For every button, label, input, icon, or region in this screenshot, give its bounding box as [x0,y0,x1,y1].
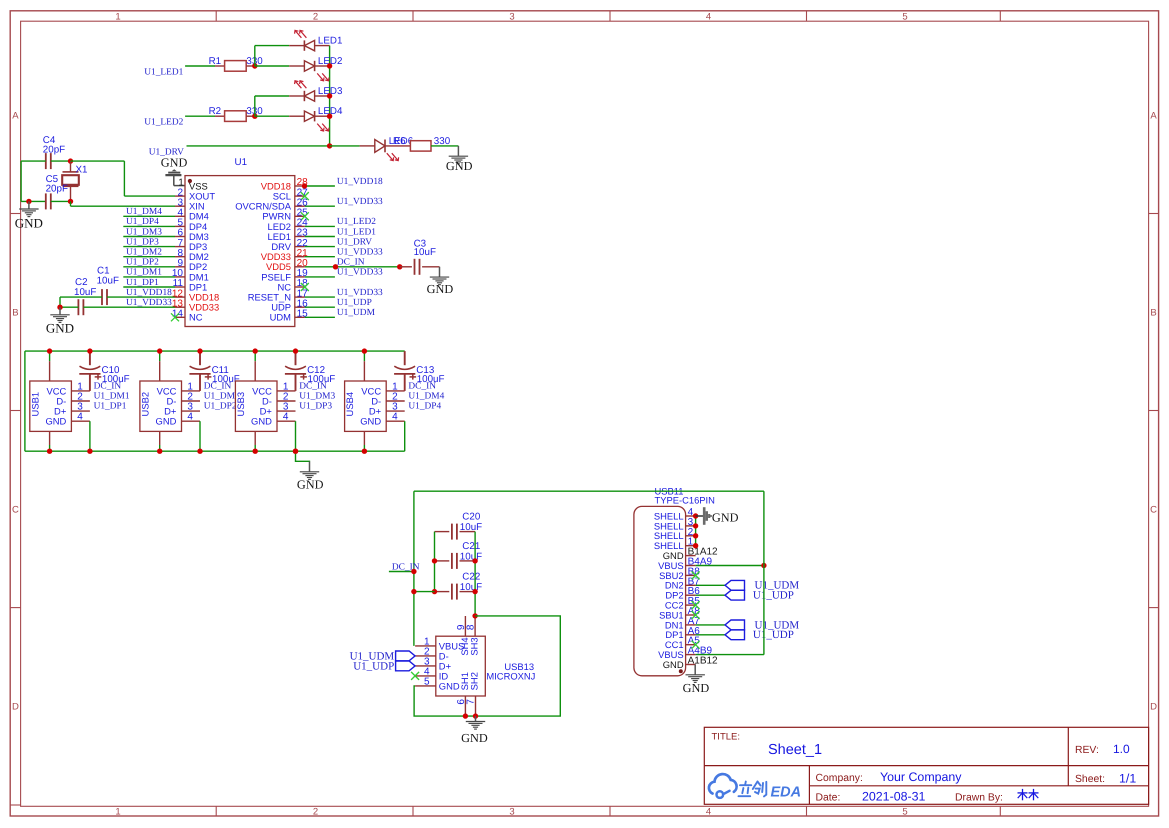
pin 7 DP3 [175,238,207,252]
svg-text:Sheet_1: Sheet_1 [768,742,822,758]
ground [15,201,43,230]
pin 16 UDP [271,298,308,312]
net label DC_IN [204,381,232,391]
svg-text:1: 1 [115,807,120,818]
wire [254,351,256,361]
pin 22 DRV [271,238,308,252]
wire [305,236,335,238]
svg-text:EDA: EDA [771,785,802,801]
svg-text:GND: GND [446,159,473,173]
junction [327,143,332,148]
svg-text:D: D [12,702,19,713]
pin 7 SH2 [466,672,480,716]
port U1_UDP [725,590,794,602]
svg-text:Your Company: Your Company [880,770,962,784]
svg-text:C21: C21 [462,541,480,552]
svg-text:U1_LED2: U1_LED2 [337,217,376,227]
wire [296,451,310,461]
pin B7 DN2 [665,576,700,590]
svg-text:4: 4 [706,11,711,22]
svg-text:U1_DM2: U1_DM2 [126,248,162,258]
wire [305,306,335,308]
junction [293,449,298,454]
svg-text:GND: GND [712,510,739,524]
junction [411,589,416,594]
junction [362,449,367,454]
junction [157,449,162,454]
ground [297,462,324,492]
wire [330,145,360,147]
net label DC_IN [94,381,122,391]
svg-text:C: C [1150,505,1157,516]
port U1_UDM [725,619,799,631]
wire [305,246,335,248]
pin 1 VBUS [415,637,464,652]
logo EasyEDA [709,774,801,800]
net label U1_UDM [337,308,376,318]
net label U1_DP3 [299,402,332,412]
wire [123,256,175,258]
svg-text:20pF: 20pF [46,184,68,195]
pin 1 VSS [178,178,208,192]
wire [434,532,436,592]
junction [87,348,92,353]
ground [461,716,488,745]
capacitor C4 20pF [43,135,65,169]
wire [305,296,335,298]
wire [255,65,289,67]
wire [123,225,175,227]
ground [427,267,454,296]
svg-text:TYPE-C16PIN: TYPE-C16PIN [655,494,715,505]
junction [197,449,202,454]
wire [123,266,175,268]
wire [49,351,51,361]
svg-text:R6: R6 [393,136,406,147]
net label U1_LED2 [144,118,183,128]
wire [254,445,256,451]
wire [363,351,365,361]
svg-text:GND: GND [663,659,684,670]
pin B6 DP2 [665,586,700,600]
resistor R2 330 [209,106,264,121]
svg-text:C22: C22 [462,572,480,583]
svg-text:10uF: 10uF [460,551,482,562]
pin A6 DP1 [665,626,700,640]
wire [305,185,335,187]
wire DC_IN bus [25,351,405,451]
svg-text:U1_DP2: U1_DP2 [126,258,159,268]
capacitor C20 10uF [435,512,483,540]
wire [71,201,176,206]
svg-text:5: 5 [902,11,907,22]
svg-text:GND: GND [251,416,272,427]
junction [761,563,766,568]
pin 20 VDD5 [266,258,308,272]
wire [123,215,175,217]
svg-text:B: B [12,308,18,319]
pin 17 RESET_N [248,288,308,302]
svg-text:5: 5 [902,807,907,818]
junction [327,114,332,119]
connector USB13 designator [486,661,535,682]
resistor R6 330 [410,136,450,151]
junction [157,348,162,353]
wire [305,205,335,207]
svg-text:GND: GND [461,731,488,745]
wire [474,532,476,616]
wire [60,306,175,308]
svg-text:U1_DM4: U1_DM4 [408,391,444,401]
svg-text:DC_IN: DC_IN [204,381,232,391]
pin A7 DN1 [665,616,700,630]
wire [51,200,71,202]
svg-text:U1_UDP: U1_UDP [337,298,372,308]
wire [695,516,697,546]
pin 26 OVCRN/SDA [235,197,308,211]
connector USB3 [235,361,296,445]
wire [696,594,725,596]
svg-text:U1_UDP: U1_UDP [353,660,394,672]
wire [123,286,175,288]
svg-text:Drawn By:: Drawn By: [955,792,1003,803]
wire [696,491,764,654]
svg-text:U1_VDD33: U1_VDD33 [337,248,383,258]
capacitor C3 10uF [400,239,440,275]
svg-text:U1_DM3: U1_DM3 [299,391,335,401]
title block [704,727,1148,804]
svg-text:U1_LED1: U1_LED1 [144,67,183,77]
net label U1_UDP [337,298,372,308]
pin 28 VDD18 [261,177,308,191]
svg-text:U1_VDD33: U1_VDD33 [337,197,383,207]
net label U1_DM4 [126,207,162,217]
wire [60,296,175,298]
connector USB11 body [634,506,686,675]
pin 1 SHELL [654,537,696,551]
pin 10 DM1 [172,268,209,282]
LED LED2 [289,56,342,81]
svg-text:GND: GND [427,282,454,296]
net label U1_DP1 [94,402,127,412]
svg-text:1.0: 1.0 [1113,742,1130,756]
pin 9 SH4 [456,616,470,656]
IC U1 designator [235,157,248,168]
svg-text:U1_VDD33: U1_VDD33 [337,288,383,298]
svg-text:REV:: REV: [1075,745,1099,756]
svg-text:USB3: USB3 [235,392,246,417]
svg-text:NC: NC [189,312,203,323]
wire [329,46,331,146]
svg-text:U1_UDP: U1_UDP [753,590,794,602]
pin 3 XIN [175,197,205,211]
pin B8 SBU2 [659,566,700,580]
pin 18 NC [277,278,308,292]
svg-text:DC_IN: DC_IN [94,381,122,391]
pin B5 CC2 [665,596,700,610]
junction [197,348,202,353]
port U1_UDP [725,629,794,641]
net label U1_VDD33 [337,248,383,258]
junction [463,713,468,718]
pin 27 SCL [273,187,309,201]
net label U1_DP2 [126,258,159,268]
port U1_UDM [725,580,799,592]
net label U1_LED2 [337,217,376,227]
pin 6 DM3 [175,228,209,242]
LED LED4 [289,106,343,131]
wire [187,145,330,147]
junction [252,63,257,68]
junction [362,348,367,353]
svg-text:USB2: USB2 [140,392,151,417]
capacitor C5 20pF [46,174,68,209]
junction [333,264,338,269]
resistor R1 330 [209,56,264,71]
net label U1_VDD18 [337,177,383,187]
net label DC_IN [337,258,365,268]
pin 9 DP2 [175,258,207,272]
wire [59,297,61,307]
svg-text:GND: GND [439,680,460,691]
pin B1A12 GND [663,547,718,561]
pin 23 LED1 [268,228,309,242]
net label U1_VDD33 [337,288,383,298]
wire [255,46,289,66]
svg-text:Date:: Date: [816,792,841,803]
svg-text:7: 7 [466,699,477,705]
svg-text:U1_DP3: U1_DP3 [299,402,332,412]
net label U1_VDD18 [126,288,172,298]
wire [414,616,560,716]
svg-text:U1_VDD33: U1_VDD33 [337,268,383,278]
no-connect [692,601,700,609]
svg-text:U1_DP1: U1_DP1 [126,278,159,288]
svg-text:LED1: LED1 [318,36,343,47]
svg-text:10uF: 10uF [460,522,482,533]
pin 12 VDD18 [172,288,219,302]
no-connect [692,611,700,619]
pin 21 VDD33 [261,248,308,262]
net label U1_DM1 [126,268,162,278]
svg-text:A: A [1150,111,1157,122]
capacitor C2 10uF [74,277,96,315]
svg-text:U1: U1 [235,157,248,168]
connector USB11 designator [655,485,715,505]
pin 3 SHELL [654,517,696,531]
pin A1B12 GND [663,656,718,670]
wire [51,160,71,162]
junction [47,449,52,454]
wire [49,445,51,451]
svg-text:U1_DP4: U1_DP4 [408,402,441,412]
wire [185,65,215,67]
svg-text:8: 8 [466,624,477,630]
svg-text:1/1: 1/1 [1119,771,1136,785]
svg-text:USB4: USB4 [344,392,355,417]
capacitor C22 10uF [435,572,483,600]
no-connect [692,571,700,579]
svg-text:A: A [12,111,19,122]
junction [327,63,332,68]
svg-text:1: 1 [115,11,120,22]
junction [87,449,92,454]
svg-text:Company:: Company: [816,773,863,784]
crystal X1 [62,161,87,201]
ground [46,307,74,335]
pin 13 VDD33 [172,298,219,312]
wire [255,115,289,117]
wire [305,256,335,258]
wire [696,634,725,636]
svg-text:MICROXNJ: MICROXNJ [486,670,535,681]
pin 5 DP4 [175,218,207,232]
junction [693,543,698,548]
junction [47,348,52,353]
net label U1_DP3 [126,237,159,247]
wire [404,421,406,451]
net label U1_DM3 [126,227,162,237]
net label U1_VDD33 [337,268,383,278]
wire [159,351,161,361]
svg-text:10uF: 10uF [414,247,436,258]
net label U1_DM3 [299,391,335,401]
svg-text:U1_VDD18: U1_VDD18 [126,288,172,298]
svg-text:U1_DM1: U1_DM1 [126,268,162,278]
svg-text:U1_UDP: U1_UDP [753,629,794,641]
wire [89,421,91,451]
pin 4 SHELL [654,507,696,521]
svg-text:USB1: USB1 [29,392,40,417]
junction [432,589,437,594]
wire [123,236,175,238]
net label U1_DM1 [94,391,130,401]
svg-text:GND: GND [297,478,324,492]
pin A5 CC1 [665,636,700,650]
net label U1_DRV [337,237,372,247]
wire [159,445,161,451]
pin 2 SHELL [654,527,696,541]
junction [432,558,437,563]
junction [252,114,257,119]
net label DC_IN [299,381,327,391]
junction [327,93,332,98]
svg-text:U1_VDD18: U1_VDD18 [337,177,383,187]
pin 24 LED2 [268,218,309,232]
junction [472,613,477,618]
svg-text:GND: GND [683,681,710,695]
wire [305,225,335,227]
svg-text:GND: GND [46,321,74,336]
svg-text:TITLE:: TITLE: [712,732,741,743]
svg-text:2: 2 [313,11,318,22]
svg-text:SH3: SH3 [469,637,480,655]
net label U1_DM4 [408,391,444,401]
net label U1_LED1 [337,227,376,237]
junction [293,348,298,353]
wire [71,161,176,196]
net label U1_DP4 [126,217,159,227]
svg-text:B: B [1150,308,1156,319]
net label DC_IN [408,381,436,391]
junction [473,713,478,718]
svg-text:10uF: 10uF [460,582,482,593]
pin B4A9 VBUS [658,557,712,571]
net label U1_VDD33 [337,197,383,207]
no-connect [692,641,700,649]
svg-text:GND: GND [360,416,381,427]
port U1_UDP [353,660,415,672]
svg-text:5: 5 [424,677,430,688]
IC U1 body [185,176,295,327]
junction [293,449,298,454]
svg-text:10uF: 10uF [97,276,119,287]
svg-text:U1_DP4: U1_DP4 [126,217,159,227]
wire [696,584,725,586]
svg-text:Sheet:: Sheet: [1075,774,1105,785]
svg-text:U1_LED1: U1_LED1 [337,227,376,237]
pin 4 ID [411,667,448,682]
net label U1_LED1 [144,67,183,77]
svg-text:3: 3 [509,11,514,22]
svg-text:DC_IN: DC_IN [337,258,365,268]
wire [414,591,435,593]
net label U1_DP1 [126,278,159,288]
svg-text:R1: R1 [209,56,222,67]
pin 19 PSELF [261,268,308,282]
net label U1_DP4 [408,402,441,412]
capacitor C12 100uF [285,351,335,391]
svg-text:2: 2 [313,807,318,818]
wire [696,565,764,567]
svg-text:2021-08-31: 2021-08-31 [862,789,925,803]
svg-text:U1_DP2: U1_DP2 [204,402,237,412]
svg-text:C: C [12,505,19,516]
ground [683,665,710,696]
svg-text:U1_LED2: U1_LED2 [144,118,183,128]
svg-text:U1_DM1: U1_DM1 [94,391,130,401]
pin 2 D- [415,647,449,662]
wire [123,246,175,248]
svg-text:DC_IN: DC_IN [408,381,436,391]
wire [431,145,458,147]
svg-text:GND: GND [15,216,43,231]
wire [305,266,400,268]
svg-text:GND: GND [156,416,177,427]
connector USB13 body [436,636,486,696]
capacitor C21 10uF [435,541,483,569]
junction [302,183,307,188]
net label U1_DP2 [204,402,237,412]
junction [57,305,62,310]
connector USB2 [140,361,201,445]
wire [199,421,201,451]
ground [696,507,739,525]
junction [68,199,73,204]
svg-text:DC_IN: DC_IN [299,381,327,391]
wire DC_IN link [414,491,764,646]
svg-text:R2: R2 [209,106,222,117]
pin 11 DP1 [173,278,208,292]
junction [693,523,698,528]
svg-text:U1_VDD33: U1_VDD33 [126,298,172,308]
pin 3 D+ [415,657,451,672]
LED LED6 [360,136,414,161]
net label U1_VDD33 [126,298,172,308]
junction [26,199,31,204]
wire [305,316,335,318]
net label DC_IN [389,562,420,572]
